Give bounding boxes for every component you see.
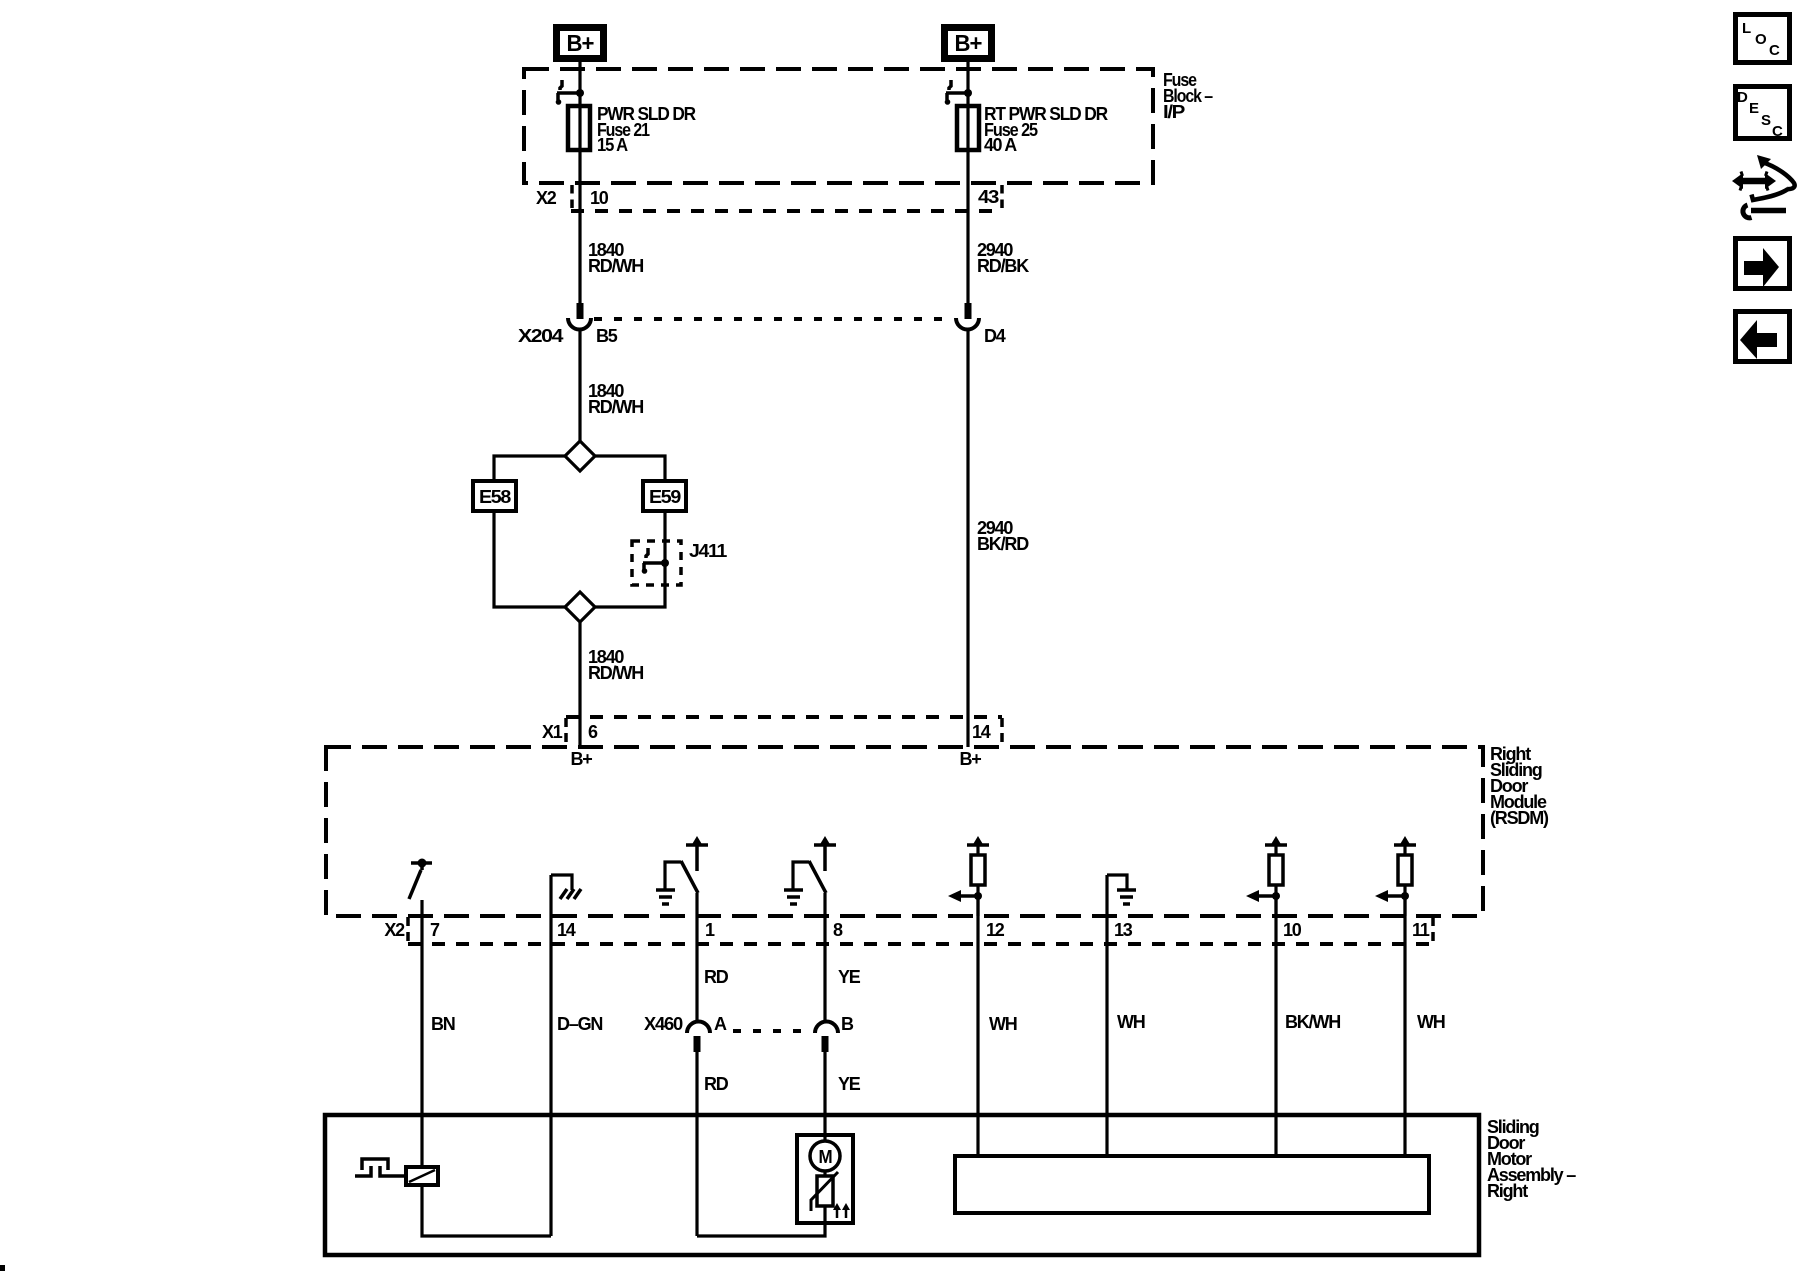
svg-text:M: M — [819, 1147, 832, 1167]
svg-text:BK/RD: BK/RD — [977, 534, 1029, 554]
wire splice down to RSDM pin 6 — [578, 622, 581, 747]
icon forward arrow button — [1736, 239, 1790, 289]
wire parallel branch loop — [494, 456, 665, 607]
wire RSDM pin 11 — [1403, 896, 1406, 1156]
svg-text:7: 7 — [430, 920, 440, 940]
output arrow (RSDM pin 11) — [1375, 890, 1409, 902]
svg-text:B: B — [841, 1014, 854, 1034]
output arrow (RSDM pin 12) — [948, 890, 982, 902]
svg-text:L: L — [1742, 20, 1751, 37]
svg-text:11: 11 — [1412, 920, 1430, 940]
label 1840 RD/WH (upper) — [588, 240, 643, 276]
contact with up arrow (RSDM pin 8) — [814, 836, 836, 871]
svg-text:S: S — [1761, 112, 1771, 129]
thermal trip arrows — [833, 1203, 850, 1218]
svg-text:A: A — [714, 1014, 727, 1034]
fuse F21 — [568, 106, 590, 150]
svg-text:YE: YE — [838, 1074, 861, 1094]
wire RSDM pin 14 — [549, 875, 552, 1236]
resistor (RSDM pin 10) — [1269, 845, 1283, 916]
power symbol B+ (right) — [941, 24, 995, 62]
mechanical linkage symbol (door latch) — [355, 1159, 407, 1176]
splice diamond (top) — [565, 441, 595, 471]
svg-text:B+: B+ — [570, 749, 592, 769]
svg-text:X2: X2 — [384, 920, 405, 940]
motor M — [810, 1141, 840, 1171]
svg-text:15 A: 15 A — [597, 135, 628, 155]
power symbol B+ (left) — [553, 24, 607, 62]
connector X1 row — [566, 717, 1002, 746]
contact with up arrow (RSDM pin 1) — [686, 836, 708, 871]
chassis ground (RSDM pin 14) — [551, 875, 581, 899]
output arrow (RSDM pin 10) — [1246, 890, 1280, 902]
svg-text:WH: WH — [1417, 1012, 1445, 1032]
wire RSDM pin 12 — [976, 896, 979, 1156]
fuse holder clip (right) — [945, 80, 972, 105]
svg-text:E58: E58 — [479, 487, 511, 507]
svg-text:E59: E59 — [649, 487, 681, 507]
svg-text:WH: WH — [989, 1014, 1017, 1034]
wire D4 down to RSDM pin 14 — [966, 330, 969, 747]
ground symbol (RSDM pin 1) — [656, 890, 675, 904]
switch (RSDM pin 7) — [409, 859, 432, 900]
svg-text:D–GN: D–GN — [557, 1014, 602, 1034]
wire X460 A down — [695, 1052, 698, 1236]
in-line connector X204 pin D4 — [956, 303, 979, 330]
label 1840 RD/WH (mid) — [588, 381, 643, 417]
svg-text:40 A: 40 A — [984, 135, 1017, 155]
fuse holder clip (left) — [556, 80, 584, 105]
fuse F25 — [957, 106, 979, 150]
wire B+ right to fuse 25 — [966, 62, 969, 106]
wire X460 B down — [823, 1052, 826, 1141]
svg-text:43: 43 — [978, 187, 999, 207]
svg-text:D4: D4 — [984, 326, 1006, 346]
svg-text:BN: BN — [431, 1014, 455, 1034]
label Sliding Door Motor Assembly - Right — [1487, 1117, 1576, 1201]
label 2940 RD/BK — [977, 240, 1029, 276]
svg-text:10: 10 — [590, 188, 609, 208]
svg-text:(RSDM): (RSDM) — [1490, 808, 1549, 828]
J411 clip symbol — [642, 548, 669, 574]
connector X2 fuse block row — [571, 185, 1002, 211]
svg-text:YE: YE — [838, 967, 861, 987]
wire fuse 25 down through connector X2 — [966, 150, 969, 303]
svg-text:RD/BK: RD/BK — [977, 256, 1029, 276]
svg-text:8: 8 — [833, 920, 843, 940]
page dot — [0, 1265, 5, 1271]
resistor (RSDM pin 12) — [971, 845, 985, 916]
svg-text:B+: B+ — [955, 30, 983, 56]
svg-text:RD: RD — [704, 967, 729, 987]
in-line connector X204 pin B5 — [568, 303, 591, 330]
contact with up arrow (RSDM pin 12) — [967, 836, 989, 846]
in-line connector X460 pin A — [687, 1022, 710, 1053]
label 2940 BK/RD — [977, 518, 1029, 554]
svg-text:BK/WH: BK/WH — [1285, 1012, 1340, 1032]
X204 connector link dashed line — [594, 317, 953, 321]
icon back arrow button — [1736, 312, 1790, 362]
svg-text:WH: WH — [1117, 1012, 1145, 1032]
svg-text:X460: X460 — [644, 1014, 683, 1034]
contact with up arrow (RSDM pin 11) — [1394, 836, 1416, 846]
svg-text:E: E — [1749, 100, 1759, 117]
svg-text:RD: RD — [704, 1074, 729, 1094]
svg-text:1: 1 — [705, 920, 715, 940]
svg-text:X1: X1 — [542, 722, 563, 742]
svg-text:10: 10 — [1283, 920, 1302, 940]
wire RSDM pin 1 — [695, 893, 698, 1023]
svg-text:D: D — [1737, 89, 1748, 106]
svg-text:12: 12 — [986, 920, 1005, 940]
svg-text:14: 14 — [972, 722, 991, 742]
icon LOC button — [1736, 15, 1790, 63]
resistor (RSDM pin 11) — [1398, 845, 1412, 916]
wire motor bottom loop to X460 A — [697, 1206, 825, 1236]
svg-text:14: 14 — [557, 920, 576, 940]
label Right Sliding Door Module (RSDM) — [1490, 744, 1549, 828]
wire B5 down to splice — [578, 330, 581, 442]
in-line connector X460 pin B — [815, 1022, 838, 1053]
component E58 — [473, 481, 516, 511]
Right Sliding Door Module (RSDM) dashed box — [326, 747, 1483, 916]
splice diamond (bottom) — [565, 592, 595, 622]
splice J411 dashed box — [632, 541, 681, 585]
connector X2 RSDM row — [408, 917, 1433, 944]
svg-text:6: 6 — [588, 722, 598, 742]
icon schematic navigation (double arrow, loop, wrench) — [1732, 155, 1795, 218]
component E59 — [643, 481, 686, 511]
wire B+ left to fuse 21 — [578, 62, 581, 106]
svg-text:B+: B+ — [959, 749, 981, 769]
label RT PWR SLD DR Fuse 25 40 A — [984, 104, 1108, 155]
svg-text:RD/WH: RD/WH — [588, 256, 643, 276]
motor feed rail box — [955, 1156, 1429, 1213]
svg-text:J411: J411 — [689, 541, 727, 561]
wire RSDM pin 8 — [823, 893, 826, 1022]
wire RSDM pin 10 — [1274, 896, 1277, 1156]
svg-text:RD/WH: RD/WH — [588, 663, 643, 683]
svg-text:B5: B5 — [596, 326, 618, 346]
svg-text:13: 13 — [1114, 920, 1133, 940]
Sliding Door Motor Assembly box — [325, 1115, 1479, 1255]
label 1840 RD/WH (lower) — [588, 647, 643, 683]
icon DESC button — [1736, 87, 1790, 141]
wire fuse 21 down through connector X2 — [578, 150, 581, 303]
Fuse Block - I/P dashed box — [524, 69, 1153, 183]
svg-text:RD/WH: RD/WH — [588, 397, 643, 417]
svg-text:Right: Right — [1487, 1181, 1528, 1201]
svg-text:X204: X204 — [518, 326, 563, 346]
switch to ground (RSDM pin 1) — [665, 861, 698, 893]
svg-text:I/P: I/P — [1163, 102, 1185, 122]
thermal protector — [811, 1171, 838, 1211]
motor assembly inner box — [797, 1135, 853, 1223]
svg-text:O: O — [1755, 31, 1767, 48]
wire RSDM pin 7 — [420, 900, 423, 1167]
svg-text:C: C — [1772, 123, 1783, 140]
latch switch box with diagonal — [406, 1167, 438, 1185]
ground symbol (RSDM pin 13) — [1107, 875, 1136, 904]
label PWR SLD DR Fuse 21 15 A — [597, 104, 696, 155]
svg-text:X2: X2 — [536, 188, 557, 208]
svg-text:C: C — [1769, 42, 1780, 59]
ground symbol (RSDM pin 8) — [784, 890, 803, 904]
label Fuse Block - I/P — [1163, 70, 1213, 122]
wire RSDM pin 13 — [1105, 875, 1108, 1156]
wire latch down and across to D-GN — [422, 1185, 551, 1236]
switch to ground (RSDM pin 8) — [793, 861, 826, 893]
wire into motor — [823, 1135, 826, 1142]
svg-text:B+: B+ — [567, 30, 595, 56]
contact with up arrow (RSDM pin 10) — [1265, 836, 1287, 846]
X460 connector link dashed line — [733, 1029, 810, 1033]
